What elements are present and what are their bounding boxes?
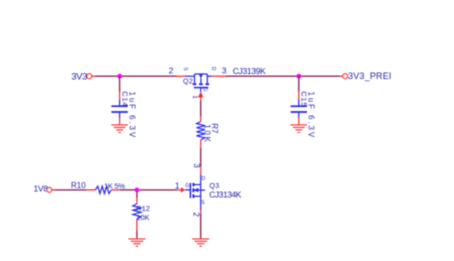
svg-text:1uF 6.3V: 1uF 6.3V xyxy=(127,92,136,140)
svg-text:10K: 10K xyxy=(136,213,149,222)
transistor Q2 pin 2 stub xyxy=(177,75,186,77)
wire Q3 source to ground xyxy=(200,213,202,238)
ground below C15 xyxy=(291,125,308,132)
svg-text:2: 2 xyxy=(192,212,201,217)
wire 3V3 rail left xyxy=(95,75,177,77)
svg-text:R7: R7 xyxy=(210,123,219,134)
wire Q2 gate to R7 xyxy=(200,101,202,117)
capacitor C15 xyxy=(291,92,307,125)
svg-text:3: 3 xyxy=(222,65,227,75)
svg-text:Q2: Q2 xyxy=(183,78,193,85)
svg-text:G: G xyxy=(202,88,208,92)
svg-text:3: 3 xyxy=(192,163,201,168)
svg-text:3V3: 3V3 xyxy=(71,71,87,82)
transistor Q3 pin 3 stub xyxy=(200,166,202,174)
transistor Q2 gate pin 1 arrow xyxy=(200,88,202,93)
transistor Q2 body xyxy=(185,74,212,88)
node junction R12 xyxy=(135,188,140,193)
wire 3V3_PREI terminal red link xyxy=(340,75,343,77)
node junction at C14 xyxy=(117,74,122,79)
svg-text:D: D xyxy=(210,67,216,71)
svg-text:1: 1 xyxy=(175,181,180,191)
transistor Q3 gate pin red segment xyxy=(177,189,181,191)
transistor Q3 body xyxy=(190,174,205,210)
transistor Q2 pin 3 stub xyxy=(212,75,226,77)
wire R12 to ground xyxy=(136,231,138,238)
node 3V3 terminal circle xyxy=(87,74,92,79)
wire 3V3 rail right xyxy=(225,75,340,77)
svg-text:1K 5%: 1K 5% xyxy=(104,181,125,190)
wire C14 drop xyxy=(119,76,121,91)
wire junction to Q3 gate xyxy=(139,189,177,191)
svg-text:1uF 6.3V: 1uF 6.3V xyxy=(306,92,315,140)
svg-text:CJ3139K: CJ3139K xyxy=(233,66,266,76)
svg-text:G: G xyxy=(185,183,189,189)
ground below C14 xyxy=(111,125,128,132)
svg-text:1V8: 1V8 xyxy=(34,184,49,194)
svg-text:3V3_PREI: 3V3_PREI xyxy=(348,71,392,81)
svg-text:CJ3134K: CJ3134K xyxy=(209,189,242,199)
svg-text:R10: R10 xyxy=(71,181,86,190)
wire 3V3 terminal red link xyxy=(92,75,95,77)
transistor Q3 gate lead xyxy=(185,189,191,191)
node 1V8 terminal circle xyxy=(47,187,52,192)
capacitor C14 xyxy=(111,92,127,125)
svg-text:1: 1 xyxy=(191,95,198,99)
ground below R12 xyxy=(128,239,145,246)
resistor R10 xyxy=(86,186,119,193)
svg-text:D: D xyxy=(202,176,206,182)
ground below Q3 xyxy=(192,239,209,246)
resistor R12 xyxy=(133,192,141,231)
wire R7 to Q3 drain xyxy=(200,148,202,166)
wire C15 drop xyxy=(298,76,300,91)
wire R10 to junction xyxy=(120,189,135,191)
transistor Q3 gate pin 1 arrow xyxy=(181,187,185,192)
resistor R7 xyxy=(197,117,205,148)
svg-text:2: 2 xyxy=(169,65,174,75)
node junction at C15 xyxy=(296,74,301,79)
wire 1V8 terminal red link xyxy=(52,189,55,191)
node 3V3_PREI terminal circle xyxy=(343,74,348,79)
transistor Q3 pin 2 stub xyxy=(200,210,202,214)
wire 1V8 to R10 xyxy=(55,189,87,191)
